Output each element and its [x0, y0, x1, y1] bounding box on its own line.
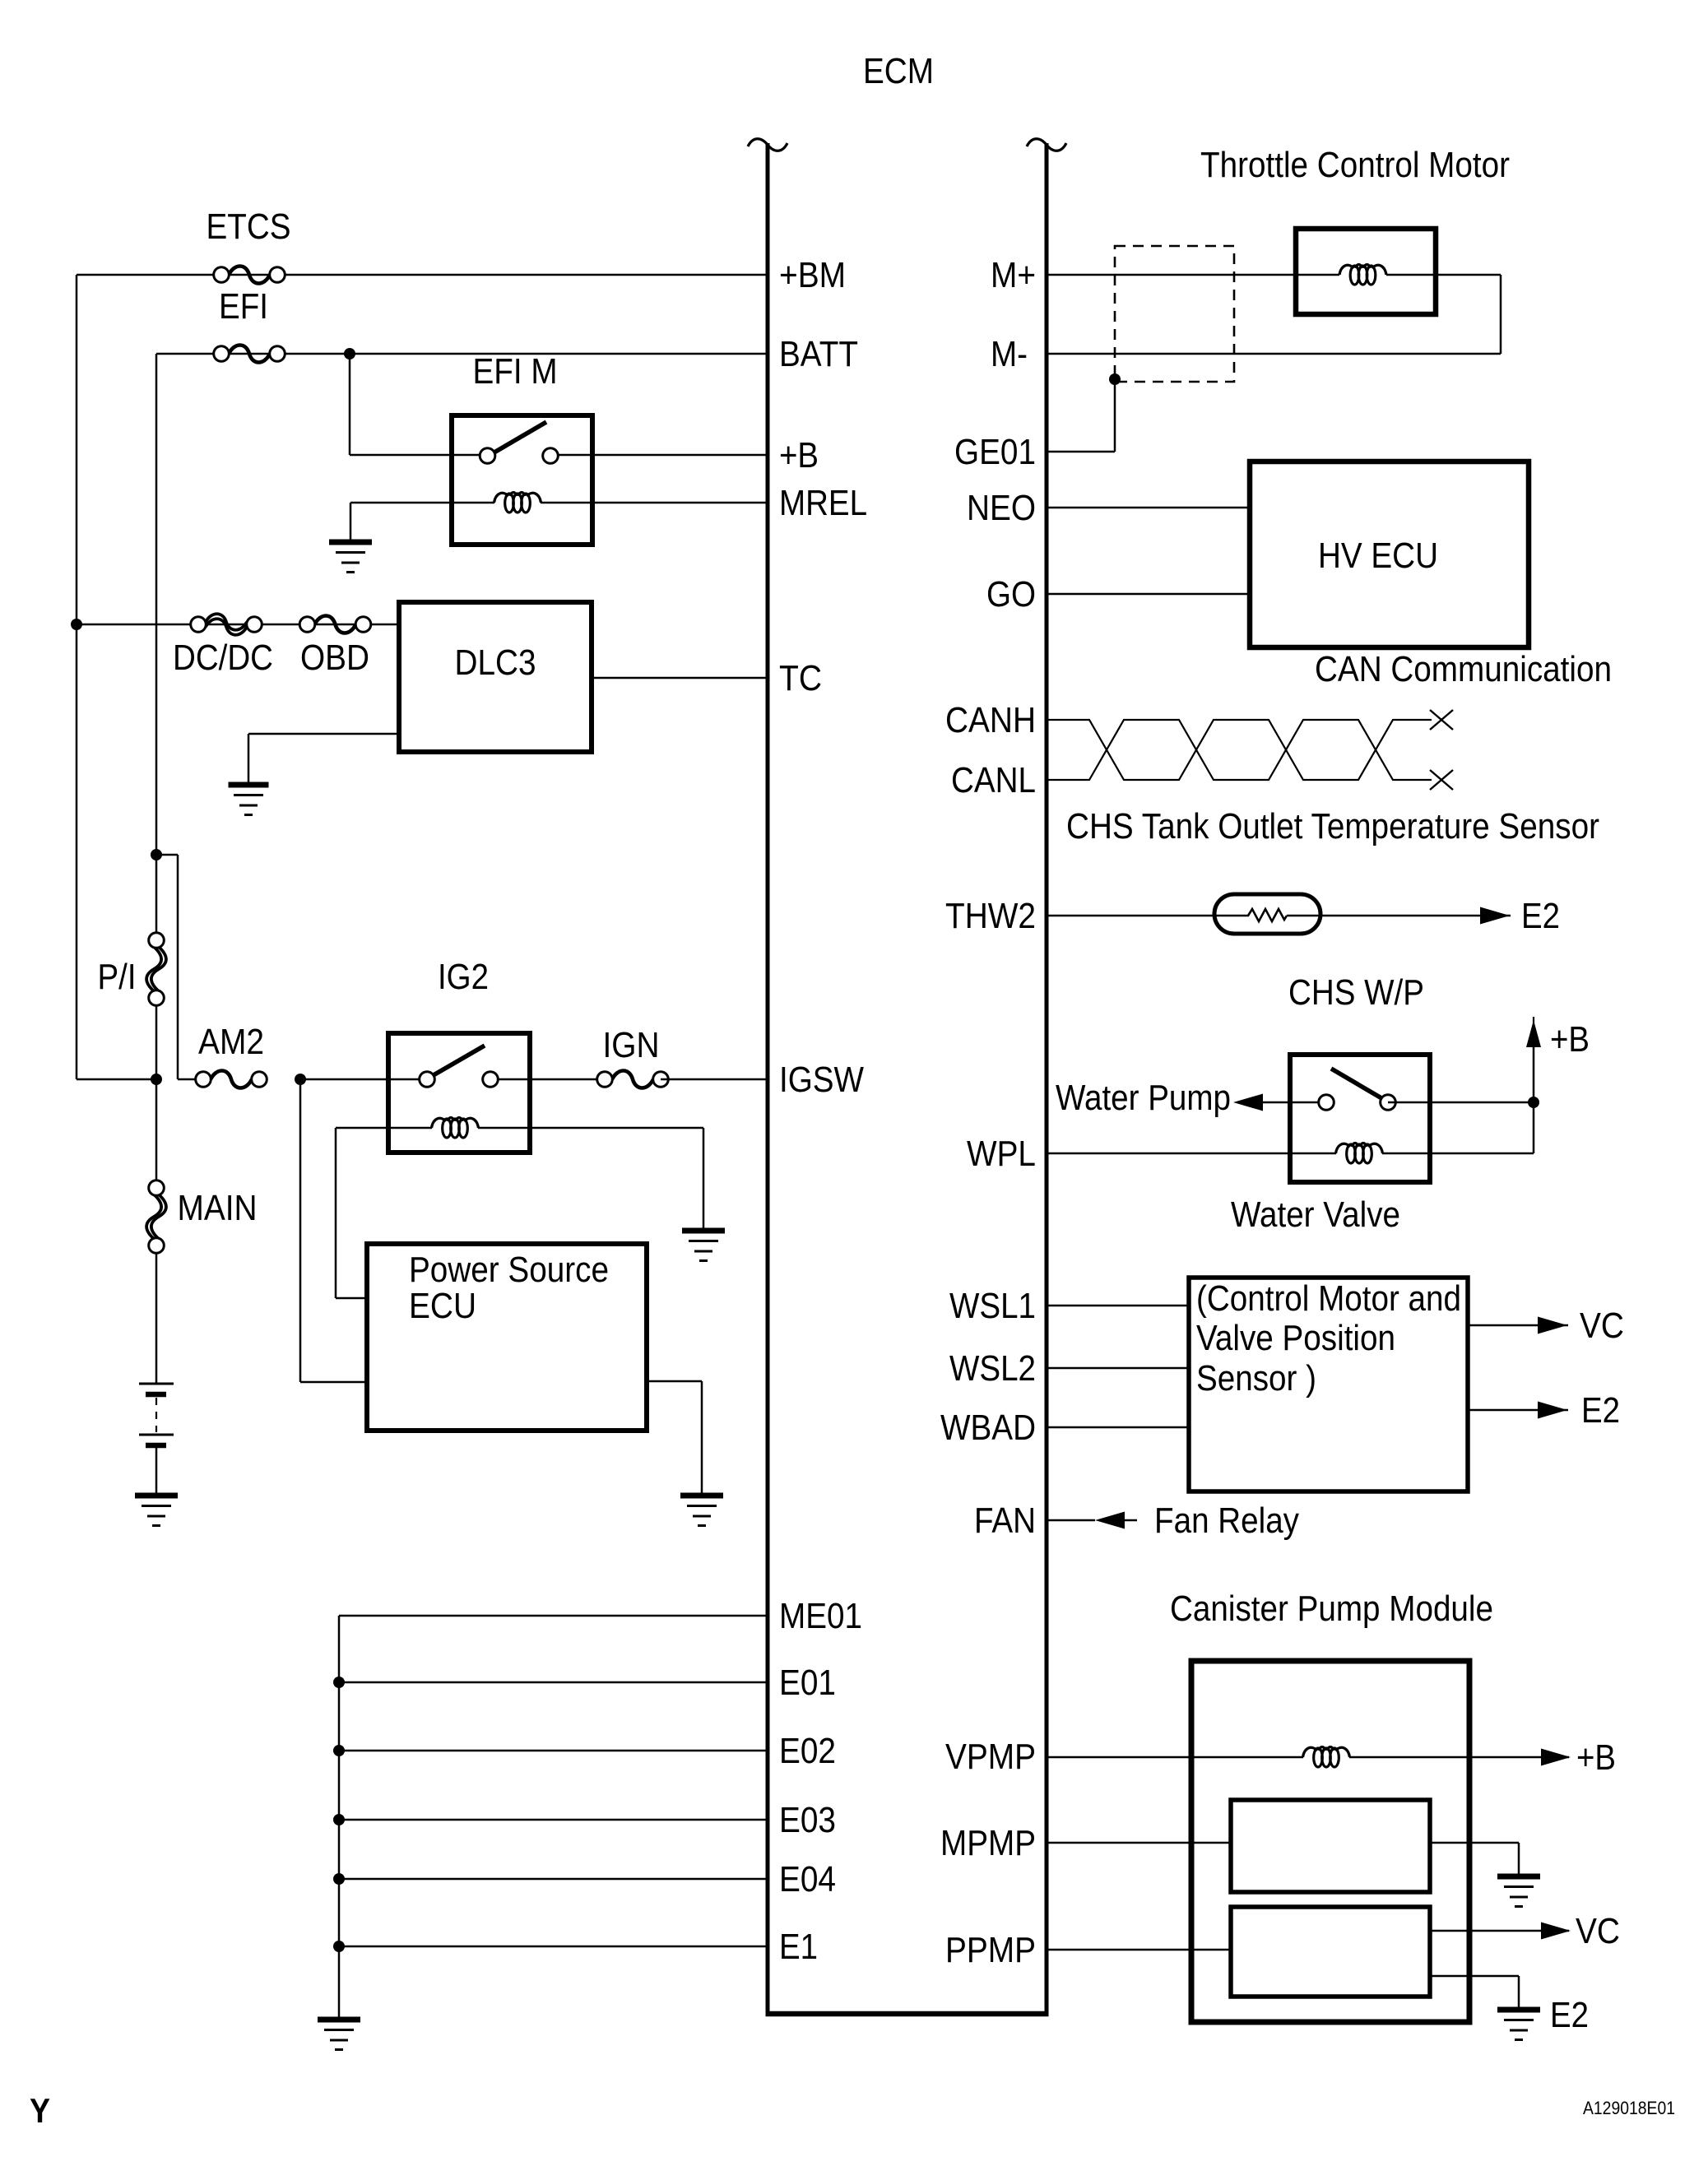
fusible link DC/DC label	[173, 638, 273, 678]
label Canister Pump Module	[1170, 1589, 1493, 1629]
fuse ETCS	[214, 267, 285, 284]
wire ME01 pin	[339, 1615, 768, 1617]
label E2 (canister)	[1550, 1995, 1589, 2035]
svg-text:CANH: CANH	[945, 700, 1036, 740]
node junction E01	[333, 1677, 345, 1688]
svg-text:+B: +B	[1550, 1019, 1590, 1060]
svg-text:CHS W/P: CHS W/P	[1288, 972, 1424, 1013]
label Water Valve	[1231, 1194, 1400, 1235]
ECM left pin labels	[779, 255, 867, 1967]
node junction GE01 / dashed box corner	[1109, 373, 1121, 385]
label Water Pump	[1056, 1078, 1231, 1118]
wire E03 pin	[339, 1819, 768, 1821]
wire pump box1 to ground	[1430, 1843, 1519, 1876]
throttle position connector dashed box	[1115, 246, 1234, 382]
wire pump box2 to E2 ground	[1430, 1976, 1519, 2010]
ground EFI M relay coil	[329, 503, 372, 573]
wire THW2 to E2 arrow	[1287, 915, 1511, 917]
svg-text:MAIN: MAIN	[178, 1188, 258, 1228]
svg-text:EFI M: EFI M	[473, 351, 558, 392]
label VC (valve sensor)	[1580, 1306, 1624, 1346]
arrow Fan Relay (left)	[1095, 1512, 1125, 1529]
ECM connector left vertical line	[748, 139, 787, 2014]
wire DLC3 ground lead	[248, 734, 399, 785]
node junction bus B / AM2 branch	[151, 849, 162, 860]
arrow +B (canister)	[1541, 1749, 1571, 1766]
svg-text:ME01: ME01	[779, 1596, 862, 1636]
svg-text:MPMP: MPMP	[940, 1823, 1036, 1863]
svg-text:ECU: ECU	[409, 1286, 476, 1326]
wire GO pin	[1047, 593, 1250, 596]
node junction AM2 / Power Source ECU branch	[295, 1074, 306, 1085]
wire GE01 pin	[1047, 379, 1115, 452]
ECM connector bottom edge	[766, 2011, 1049, 2017]
svg-text:E04: E04	[779, 1859, 836, 1899]
wire MPMP pin	[1047, 1842, 1231, 1844]
label E2 (valve sensor)	[1581, 1390, 1620, 1431]
svg-text:DC/DC: DC/DC	[173, 638, 273, 678]
water pump relay switch	[1319, 1069, 1396, 1110]
canister pump coil	[1303, 1747, 1350, 1768]
wire TC pin	[592, 677, 768, 680]
svg-text:+B: +B	[1576, 1737, 1616, 1778]
svg-text:Fan Relay: Fan Relay	[1154, 1500, 1299, 1541]
svg-text:IGSW: IGSW	[779, 1060, 864, 1100]
svg-text:MREL: MREL	[779, 483, 867, 523]
svg-text:VPMP: VPMP	[945, 1737, 1036, 1777]
fuse AM2 label	[198, 1022, 264, 1062]
svg-text:AM2: AM2	[198, 1022, 264, 1062]
node junction bus A meets bus B	[151, 1074, 162, 1085]
label CHS Tank Outlet Temperature Sensor	[1066, 806, 1599, 846]
ECM title label	[863, 51, 934, 91]
svg-text:M-: M-	[991, 334, 1028, 374]
arrow Water Pump (left)	[1233, 1094, 1263, 1111]
fuse OBD label	[300, 638, 369, 678]
water pump relay coil	[1336, 1143, 1383, 1164]
wire relay switch right to +B	[1388, 1047, 1534, 1153]
ground battery	[135, 1496, 178, 1526]
arrow VC (canister)	[1541, 1923, 1571, 1940]
ground canister pump box1	[1497, 1876, 1540, 1907]
svg-text:E01: E01	[779, 1663, 836, 1703]
ground ECM E-pins bus	[318, 2020, 360, 2050]
wire motor return loop	[1047, 275, 1501, 354]
svg-text:E02: E02	[779, 1731, 836, 1771]
fuse IGN label	[603, 1025, 660, 1065]
wire PPMP pin	[1047, 1949, 1231, 1951]
wire E01 pin	[339, 1681, 768, 1684]
svg-text:E2: E2	[1521, 896, 1560, 936]
svg-text:E1: E1	[779, 1927, 818, 1967]
arrow +B up (water pump)	[1526, 1017, 1541, 1047]
fusible link MAIN label	[178, 1188, 258, 1228]
wire BATT feed horizontal	[156, 353, 768, 355]
label +B (canister)	[1576, 1737, 1616, 1778]
water pump relay box	[1290, 1055, 1430, 1182]
relay IG2 box	[388, 1033, 530, 1153]
label CAN Communication	[1315, 649, 1612, 689]
block DLC3 label	[455, 642, 536, 683]
node junction BATT/EFI-M relay	[344, 348, 355, 359]
fuse AM2	[196, 1071, 267, 1088]
svg-text:Canister Pump Module: Canister Pump Module	[1170, 1589, 1493, 1629]
relay IG2 label	[438, 957, 489, 997]
label E2 (THW2)	[1521, 896, 1560, 936]
svg-text:GE01: GE01	[954, 432, 1036, 472]
node junction water pump +B	[1528, 1097, 1539, 1108]
node junction E02	[333, 1745, 345, 1756]
svg-text:P/I: P/I	[98, 957, 137, 997]
svg-text:BATT: BATT	[779, 334, 858, 374]
label Y page marker	[30, 2091, 50, 2130]
wire bus B between P/I and MAIN	[155, 1005, 158, 1181]
node junction E03	[333, 1814, 345, 1825]
wire EFI M relay feed	[350, 354, 452, 455]
svg-text:Power Source: Power Source	[409, 1250, 609, 1290]
svg-text:CAN Communication: CAN Communication	[1315, 649, 1612, 689]
wire WPL pin / relay coil	[1047, 1153, 1534, 1155]
label drawing number A129018E01	[1583, 2098, 1675, 2118]
wire IGSW pin	[661, 1078, 768, 1081]
wire VC output (valve sensor)	[1468, 1324, 1568, 1327]
svg-text:CANL: CANL	[951, 760, 1036, 800]
wire +B pin	[592, 454, 768, 457]
svg-text:FAN: FAN	[974, 1500, 1036, 1541]
svg-text:Water Pump: Water Pump	[1056, 1078, 1231, 1118]
block HV ECU label	[1318, 536, 1438, 576]
block Power Source ECU label	[409, 1250, 609, 1326]
canister pump inner box 2	[1231, 1907, 1430, 1997]
label VC (canister)	[1576, 1911, 1620, 1951]
block Control Motor label	[1196, 1278, 1461, 1398]
arrow E2 (valve sensor)	[1538, 1402, 1567, 1419]
fuse ETCS label	[207, 206, 291, 247]
wire E2 output (valve sensor)	[1468, 1409, 1568, 1412]
wire CAN twisted pair CANL	[1047, 720, 1432, 780]
CANL termination X	[1430, 770, 1453, 790]
ground canister pump box2 E2	[1497, 2010, 1540, 2040]
label +B (water pump)	[1550, 1019, 1590, 1060]
wire E02 pin	[339, 1750, 768, 1752]
block Control Motor and Valve Position Sensor box	[1189, 1278, 1468, 1491]
wire CAN twisted pair CANH	[1047, 720, 1432, 780]
node junction E04	[333, 1873, 345, 1885]
fusible link P/I	[146, 933, 166, 1006]
svg-text:(Control Motor and: (Control Motor and	[1196, 1278, 1461, 1319]
wire ground bus vertical	[338, 1616, 341, 2020]
wire WSL1 pin	[1047, 1305, 1189, 1307]
relay EFI M label	[473, 351, 558, 392]
svg-text:EFI: EFI	[219, 286, 268, 327]
wire M+ pin to motor	[1047, 274, 1339, 276]
svg-text:OBD: OBD	[300, 638, 369, 678]
svg-text:A129018E01: A129018E01	[1583, 2098, 1675, 2118]
svg-text:WBAD: WBAD	[940, 1408, 1036, 1448]
fusible link MAIN	[146, 1180, 166, 1254]
svg-text:WPL: WPL	[967, 1134, 1036, 1174]
wire VPMP pin / pump coil	[1047, 1756, 1569, 1759]
svg-text:Water Valve: Water Valve	[1231, 1194, 1400, 1235]
wire WSL2 pin	[1047, 1367, 1189, 1370]
svg-text:GO: GO	[986, 574, 1036, 615]
svg-text:CHS Tank Outlet Temperature Se: CHS Tank Outlet Temperature Sensor	[1066, 806, 1599, 846]
svg-text:+BM: +BM	[779, 255, 846, 295]
wire WBAD pin	[1047, 1426, 1189, 1429]
wire Power Source ECU ground lead	[647, 1381, 702, 1496]
svg-text:PPMP: PPMP	[945, 1930, 1036, 1970]
wire IGSW row IG2 to IGN	[490, 1078, 605, 1081]
ground IG2 coil	[682, 1231, 725, 1261]
fusible link P/I label	[98, 957, 137, 997]
svg-text:THW2: THW2	[945, 896, 1036, 936]
label Fan Relay	[1154, 1500, 1299, 1541]
relay IG2 switch	[391, 1046, 498, 1087]
ground Power Source ECU	[680, 1496, 723, 1526]
svg-text:ECM: ECM	[863, 51, 934, 91]
wire water pump relay switch left	[1263, 1102, 1326, 1104]
svg-text:+B: +B	[779, 435, 819, 475]
relay IG2 coil	[432, 1118, 479, 1139]
wire AM2 to IG2 relay	[300, 1078, 388, 1081]
block HV ECU box	[1250, 462, 1529, 647]
wire +BM feed horizontal	[77, 274, 768, 276]
node junction E1	[333, 1941, 345, 1952]
svg-text:IG2: IG2	[438, 957, 489, 997]
svg-text:VC: VC	[1580, 1306, 1624, 1346]
canister pump module box	[1191, 1661, 1469, 2022]
svg-text:E2: E2	[1581, 1390, 1620, 1431]
wire pump box2 to VC	[1430, 1930, 1569, 1932]
svg-text:Throttle Control Motor: Throttle Control Motor	[1200, 145, 1510, 185]
ground DLC3	[229, 785, 269, 815]
arrow VC (valve sensor)	[1538, 1317, 1567, 1334]
thermistor THW2 sensor body	[1214, 894, 1320, 934]
wire E04 pin	[339, 1878, 768, 1881]
fuse EFI	[214, 346, 285, 363]
wire THW2 pin	[1047, 915, 1249, 917]
thermistor THW2 resistor zigzag	[1248, 909, 1287, 921]
svg-text:Valve Position: Valve Position	[1196, 1318, 1395, 1358]
svg-text:E2: E2	[1550, 1995, 1589, 2035]
svg-text:NEO: NEO	[967, 488, 1036, 528]
svg-text:TC: TC	[779, 658, 822, 698]
fuse OBD	[299, 616, 371, 633]
svg-text:ETCS: ETCS	[207, 206, 291, 247]
wire Power Source ECU lower feed	[300, 1079, 367, 1382]
svg-text:HV ECU: HV ECU	[1318, 536, 1438, 576]
wire AM2 branch elbow	[156, 855, 204, 1079]
svg-text:M+: M+	[991, 255, 1036, 295]
relay EFI M box	[452, 415, 592, 545]
svg-text:Sensor ): Sensor )	[1196, 1358, 1316, 1398]
wire vertical bus A from +BM down to IGSW row	[77, 275, 156, 1079]
block DLC3 box	[399, 602, 592, 752]
svg-text:DLC3: DLC3	[455, 642, 536, 683]
svg-text:Y: Y	[30, 2091, 50, 2130]
svg-text:E03: E03	[779, 1800, 836, 1840]
arrow THW2 E2	[1480, 907, 1510, 925]
throttle motor box	[1296, 229, 1436, 314]
svg-text:WSL1: WSL1	[949, 1286, 1036, 1326]
wire DC/DC-OBD feed	[77, 624, 399, 626]
fuse IGN	[597, 1071, 669, 1088]
svg-text:VC: VC	[1576, 1911, 1620, 1951]
wire E1 pin	[339, 1946, 768, 1948]
label CHS W/P	[1288, 972, 1424, 1013]
fusible link DC/DC	[191, 614, 262, 635]
label Throttle Control Motor	[1200, 145, 1510, 185]
relay EFI M switch	[454, 422, 590, 463]
svg-text:WSL2: WSL2	[949, 1348, 1036, 1389]
wire vertical bus B BATT down to P/I	[155, 354, 158, 940]
wire IG2 coil right to ground	[478, 1128, 703, 1231]
wire MREL pin / coil	[350, 502, 768, 504]
relay EFI M coil	[494, 493, 541, 513]
wire IG2 coil left to Power Source ECU	[336, 1128, 432, 1298]
wire FAN pin	[1047, 1519, 1137, 1522]
wire NEO pin	[1047, 507, 1250, 509]
ECM right pin labels	[940, 255, 1036, 1970]
svg-text:IGN: IGN	[603, 1025, 660, 1065]
ECM connector right vertical line	[1027, 139, 1066, 2014]
fuse EFI label	[219, 286, 268, 327]
throttle motor coil	[1339, 265, 1386, 285]
CANH termination X	[1430, 710, 1453, 730]
block Power Source ECU box	[367, 1244, 647, 1431]
battery	[139, 1253, 174, 1496]
canister pump inner box 1	[1231, 1800, 1430, 1892]
node junction bus A / DC-DC feed	[71, 619, 82, 630]
